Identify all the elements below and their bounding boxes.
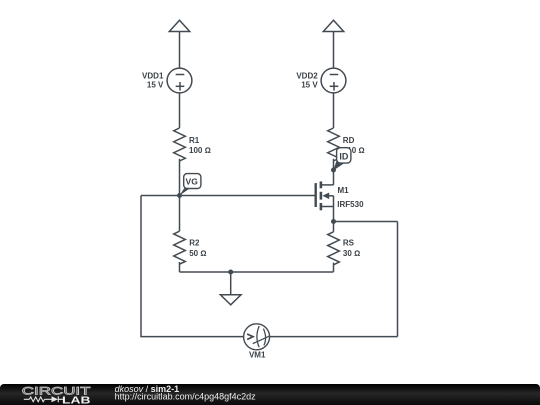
- voltmeter VM1: [244, 324, 270, 350]
- svg-text:15 V: 15 V: [147, 81, 164, 90]
- wire VDD1 to R1: [179, 93, 181, 128]
- svg-text:RS: RS: [343, 239, 355, 248]
- wire VM1 right: [270, 336, 398, 338]
- svg-text:VM1: VM1: [249, 351, 266, 360]
- svg-text:IRF530: IRF530: [337, 200, 364, 209]
- wire bottom between R2 and RS: [180, 271, 334, 273]
- voltage source VDD2: [321, 68, 346, 93]
- svg-text:M1: M1: [338, 186, 350, 195]
- footer bar: [0, 384, 540, 405]
- resistor R2: [174, 196, 186, 273]
- svg-text:R1: R1: [189, 136, 200, 145]
- wire left rail: [141, 196, 244, 337]
- ground: [220, 272, 241, 305]
- resistor RS: [328, 222, 340, 273]
- power flag VDD1 arrow: [169, 20, 189, 31]
- svg-text:VG: VG: [186, 176, 199, 186]
- probe label ID bubble: [333, 148, 351, 171]
- wire RD to drain node: [333, 159, 335, 185]
- svg-text:VDD1: VDD1: [142, 71, 164, 80]
- logo resistor-diode glyph: [24, 396, 64, 402]
- svg-text:RD: RD: [343, 136, 355, 145]
- junction dot ground: [228, 270, 233, 275]
- svg-text:100 Ω: 100 Ω: [189, 146, 211, 155]
- svg-text:50 Ω: 50 Ω: [189, 249, 206, 258]
- junction dot source: [331, 219, 336, 224]
- svg-text:ID: ID: [339, 152, 349, 162]
- svg-text:R2: R2: [189, 239, 200, 248]
- wire right rail: [397, 222, 399, 337]
- svg-text:30 Ω: 30 Ω: [343, 249, 360, 258]
- wire R1 to node VG: [179, 159, 181, 196]
- wire source to right rail: [334, 221, 398, 223]
- svg-text:15 V: 15 V: [301, 81, 318, 90]
- power flag VDD2 arrow: [323, 20, 343, 31]
- voltage source VDD1: [167, 68, 192, 93]
- wire VDD2 to RD: [333, 93, 335, 128]
- wire gate rail: [141, 195, 316, 197]
- wire drain tap: [321, 184, 334, 186]
- svg-text:LAB: LAB: [62, 395, 91, 405]
- transistor M1: [316, 181, 334, 221]
- wire arrow to VDD1: [179, 32, 181, 69]
- resistor R1: [174, 128, 186, 161]
- wire arrow to VDD2: [333, 32, 335, 69]
- net label VG bubble: [180, 174, 201, 196]
- junction dot drain probe: [331, 168, 336, 173]
- resistor RD: [328, 128, 340, 161]
- node VG junction dot: [177, 193, 182, 198]
- svg-text:http://circuitlab.com/c4pg48gf: http://circuitlab.com/c4pg48gf4c2dz: [115, 392, 257, 402]
- svg-text:VDD2: VDD2: [296, 71, 318, 80]
